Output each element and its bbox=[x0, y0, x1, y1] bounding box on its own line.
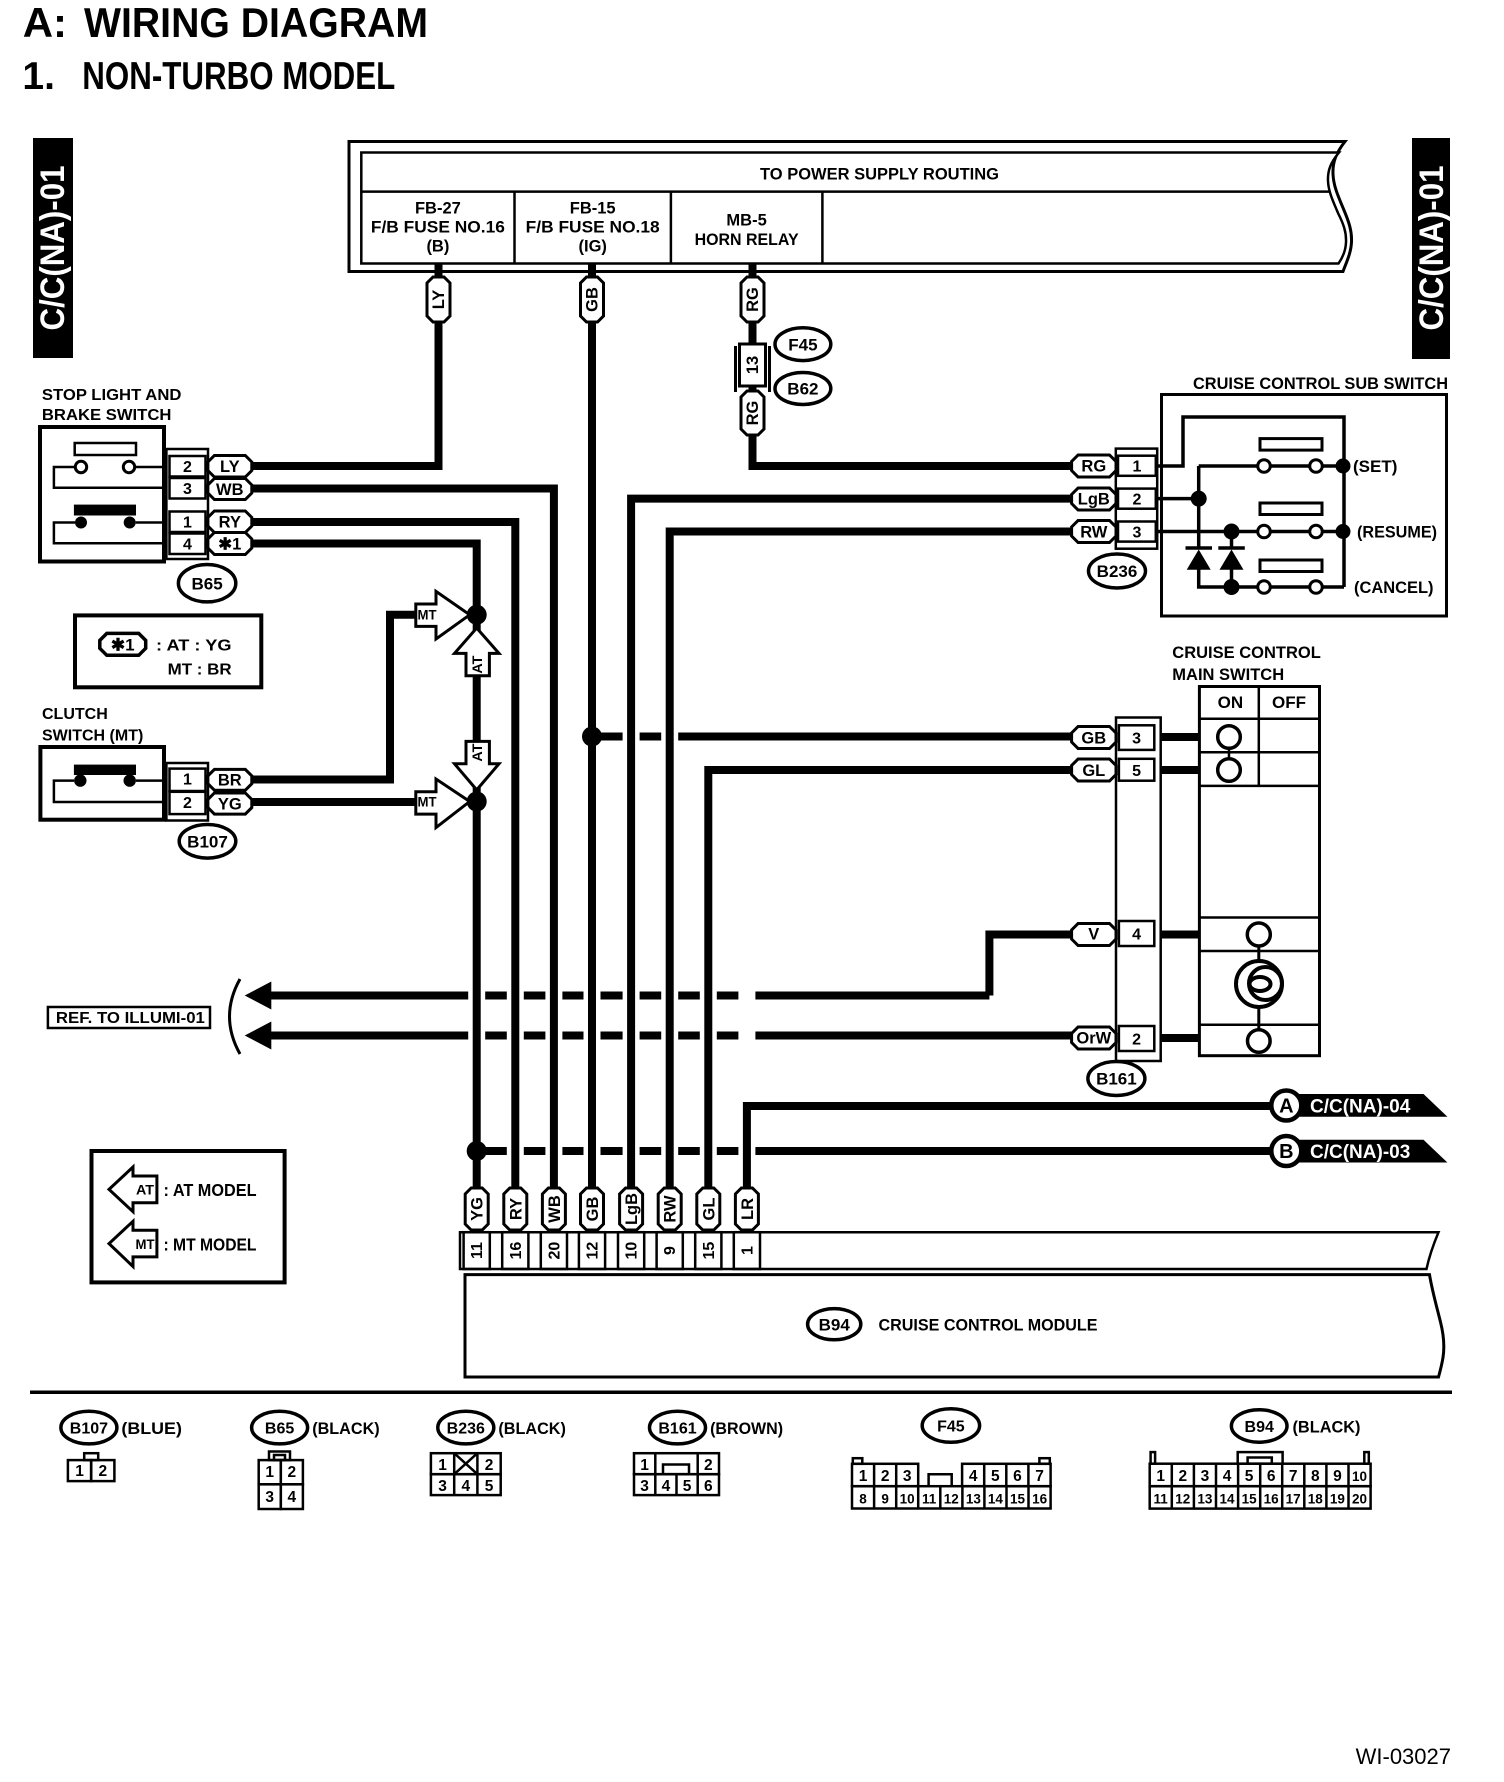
svg-text:1: 1 bbox=[265, 1464, 274, 1481]
svg-text:1: 1 bbox=[1132, 459, 1141, 476]
junction dot (MT/AT bottom) bbox=[467, 792, 487, 812]
wire label RW bbox=[1072, 521, 1116, 543]
svg-text:RY: RY bbox=[507, 1198, 525, 1220]
svg-text:3: 3 bbox=[1132, 730, 1141, 747]
svg-text:2: 2 bbox=[881, 1468, 890, 1485]
junction dot RW branch bbox=[1224, 524, 1240, 540]
wire to banner B (crossing gaps) bbox=[477, 1147, 507, 1155]
RESUME contacts bbox=[1258, 524, 1351, 539]
svg-text:4: 4 bbox=[183, 537, 192, 554]
svg-text:4: 4 bbox=[461, 1478, 470, 1495]
svg-text:4: 4 bbox=[969, 1468, 978, 1485]
module pin 15 bbox=[695, 1232, 721, 1269]
svg-text:: AT MODEL: : AT MODEL bbox=[164, 1180, 257, 1200]
svg-text:C/C(NA)-01: C/C(NA)-01 bbox=[34, 166, 72, 331]
stop light and brake switch label bbox=[42, 387, 182, 424]
wire LgB from sub switch pin2 to module bbox=[631, 499, 1072, 1190]
fuse 13 (F45/B62) bbox=[736, 344, 770, 392]
clutch switch body bbox=[40, 747, 164, 820]
arrowhead to illumination (upper) bbox=[245, 982, 272, 1010]
svg-text:(BLACK): (BLACK) bbox=[1293, 1419, 1361, 1437]
svg-text:NON-TURBO MODEL: NON-TURBO MODEL bbox=[82, 55, 395, 98]
svg-text:REF. TO ILLUMI-01: REF. TO ILLUMI-01 bbox=[56, 1010, 205, 1027]
wire OrW to REF.TO ILLUMI-01 (crossing gaps) bbox=[271, 1032, 468, 1040]
wire GB from FB-15 down to module bbox=[588, 264, 596, 1191]
wire LR to banner A bbox=[747, 1106, 1271, 1190]
svg-text:6: 6 bbox=[704, 1478, 713, 1495]
wire label GL (module) bbox=[697, 1188, 720, 1230]
wire YG from clutch pin2 to MT arrow bbox=[252, 798, 417, 806]
wire label GB bbox=[1072, 727, 1116, 749]
svg-text:8: 8 bbox=[859, 1492, 867, 1507]
wire label WB (module) bbox=[542, 1188, 565, 1230]
svg-text:: AT : YG: : AT : YG bbox=[156, 638, 232, 655]
svg-text:B94: B94 bbox=[1245, 1419, 1274, 1436]
wire RY from brake pin1 to module bbox=[252, 522, 515, 1190]
svg-text:1: 1 bbox=[183, 515, 192, 532]
junction dot diodes (cancel row) bbox=[1224, 579, 1240, 595]
svg-text:RW: RW bbox=[662, 1195, 680, 1223]
svg-text:RG: RG bbox=[744, 287, 762, 312]
diode D1 bbox=[1186, 548, 1213, 570]
svg-text:13: 13 bbox=[744, 356, 762, 374]
svg-text:(IG): (IG) bbox=[578, 238, 606, 256]
svg-text:LY: LY bbox=[430, 290, 448, 310]
svg-text:✱1: ✱1 bbox=[111, 636, 135, 655]
svg-text:1: 1 bbox=[859, 1468, 868, 1485]
main switch wire stubs bbox=[1161, 737, 1200, 1038]
svg-text:WB: WB bbox=[546, 1195, 564, 1223]
svg-text:B236: B236 bbox=[1097, 562, 1138, 581]
SET contacts bbox=[1258, 459, 1351, 474]
svg-text:HORN RELAY: HORN RELAY bbox=[695, 231, 799, 249]
connector B236 (pins 1,2,3) bbox=[1116, 449, 1157, 549]
svg-text:✱1: ✱1 bbox=[218, 536, 241, 554]
wire label RG (below fuse) bbox=[741, 391, 764, 435]
svg-text:2: 2 bbox=[1178, 1468, 1187, 1485]
svg-text:CRUISE CONTROL SUB SWITCH: CRUISE CONTROL SUB SWITCH bbox=[1193, 375, 1448, 393]
module pin 12 bbox=[579, 1232, 605, 1269]
svg-text:15: 15 bbox=[1010, 1492, 1026, 1507]
wire label RY (module) bbox=[504, 1188, 527, 1230]
svg-text:13: 13 bbox=[1197, 1492, 1213, 1507]
module pin 9 bbox=[657, 1232, 683, 1269]
svg-text:F/B FUSE NO.16: F/B FUSE NO.16 bbox=[371, 219, 505, 237]
svg-text:GB: GB bbox=[1081, 729, 1106, 747]
actuator bar SET bbox=[1260, 439, 1322, 451]
svg-text:11: 11 bbox=[1154, 1492, 1169, 1507]
wire label LR (module) bbox=[735, 1188, 758, 1230]
main switch ON contacts bbox=[1218, 726, 1241, 782]
connector view B161 (BROWN) bbox=[634, 1411, 783, 1495]
arrow AT (down, above bottom junction) bbox=[455, 741, 500, 790]
wire label LgB (module) bbox=[620, 1188, 643, 1230]
svg-text:GB: GB bbox=[584, 287, 602, 312]
svg-text:YG: YG bbox=[218, 795, 242, 813]
svg-text:(BLACK): (BLACK) bbox=[498, 1420, 566, 1438]
svg-text:2: 2 bbox=[183, 459, 192, 476]
cruise control module connector band bbox=[460, 1232, 1439, 1269]
page tag banner C/C(NA)-01 (left) bbox=[33, 138, 73, 358]
svg-text:(BROWN): (BROWN) bbox=[710, 1420, 783, 1438]
svg-text:1.: 1. bbox=[22, 55, 55, 98]
svg-text:1: 1 bbox=[1156, 1468, 1165, 1485]
svg-text:F45: F45 bbox=[788, 335, 817, 354]
svg-text:FB-15: FB-15 bbox=[570, 200, 616, 218]
wire V to REF.TO ILLUMI-01 (crossing gaps) bbox=[271, 935, 1072, 996]
wire GB junction dot bbox=[582, 727, 602, 747]
svg-text:10: 10 bbox=[900, 1492, 915, 1507]
wire label WB bbox=[208, 479, 252, 500]
svg-text:MT : BR: MT : BR bbox=[168, 662, 232, 679]
connector ref oval B161 bbox=[1088, 1062, 1145, 1096]
module pin 10 bbox=[618, 1232, 644, 1269]
internal wiring sub switch bbox=[1157, 417, 1344, 587]
svg-text:4: 4 bbox=[287, 1489, 296, 1506]
CANCEL contacts bbox=[1258, 581, 1323, 594]
note box *1 AT:YG MT:BR bbox=[75, 615, 261, 687]
svg-text:F45: F45 bbox=[937, 1418, 965, 1435]
svg-text:B161: B161 bbox=[1096, 1070, 1137, 1089]
arrow AT (up, below top junction) bbox=[455, 628, 500, 676]
svg-text:MT: MT bbox=[136, 1236, 155, 1252]
connector view B94 (BLACK) bbox=[1150, 1410, 1371, 1509]
arrowhead to illumination (lower) bbox=[245, 1022, 272, 1050]
wire label RY bbox=[208, 511, 252, 533]
svg-text:LgB: LgB bbox=[1078, 490, 1110, 508]
svg-text:AT: AT bbox=[469, 655, 485, 673]
svg-text:2: 2 bbox=[183, 795, 192, 812]
svg-text:OrW: OrW bbox=[1076, 1030, 1111, 1048]
svg-text:20: 20 bbox=[546, 1242, 563, 1260]
svg-text:3: 3 bbox=[183, 481, 192, 498]
clutch switch label bbox=[42, 706, 143, 745]
continuation arc bbox=[230, 979, 241, 1054]
wire GL from main switch to module bbox=[708, 770, 1071, 1190]
svg-text:2: 2 bbox=[1132, 1032, 1141, 1049]
svg-text:1: 1 bbox=[75, 1463, 84, 1480]
subtitle: 1. NON-TURBO MODEL bbox=[22, 55, 395, 98]
stop light and brake switch body bbox=[40, 427, 164, 562]
fuse box cell FB-15 F/B FUSE NO.18 (IG) bbox=[526, 192, 671, 264]
module pin 11 bbox=[464, 1232, 490, 1269]
svg-text:(SET): (SET) bbox=[1353, 457, 1397, 476]
svg-text:5: 5 bbox=[1132, 763, 1141, 780]
svg-text:11: 11 bbox=[469, 1242, 486, 1259]
svg-text:5: 5 bbox=[1245, 1468, 1254, 1485]
svg-text:SWITCH (MT): SWITCH (MT) bbox=[42, 728, 143, 745]
svg-text:9: 9 bbox=[881, 1492, 889, 1507]
connector ref oval B107 bbox=[179, 825, 236, 859]
svg-text:LgB: LgB bbox=[623, 1193, 641, 1225]
svg-text:LR: LR bbox=[739, 1198, 757, 1220]
svg-text:1: 1 bbox=[640, 1457, 649, 1474]
cruise control main switch box bbox=[1199, 687, 1319, 1056]
legend arrow MT bbox=[109, 1221, 157, 1266]
svg-text:CLUTCH: CLUTCH bbox=[42, 706, 108, 723]
svg-text:(B): (B) bbox=[426, 238, 449, 256]
wire label YG bbox=[208, 793, 252, 814]
svg-text:5: 5 bbox=[991, 1468, 1000, 1485]
svg-text:FB-27: FB-27 bbox=[415, 200, 461, 218]
svg-text:WIRING DIAGRAM: WIRING DIAGRAM bbox=[84, 0, 428, 46]
svg-text:9: 9 bbox=[662, 1246, 679, 1255]
junction dot LgB branch bbox=[1191, 491, 1207, 507]
svg-text:B94: B94 bbox=[819, 1315, 851, 1334]
wire BR from clutch pin1 to MT arrow bbox=[252, 615, 417, 780]
cruise control sub switch box bbox=[1162, 395, 1447, 617]
wire RW from sub switch pin3 to module bbox=[670, 532, 1072, 1191]
svg-text:OFF: OFF bbox=[1272, 693, 1306, 712]
banner A C/C(NA)-04 bbox=[1271, 1091, 1447, 1121]
svg-text:CRUISE CONTROL: CRUISE CONTROL bbox=[1172, 644, 1321, 662]
svg-text:WI-03027: WI-03027 bbox=[1356, 1744, 1451, 1769]
svg-text:6: 6 bbox=[1267, 1468, 1276, 1485]
svg-text:1: 1 bbox=[183, 772, 192, 789]
svg-text:B107: B107 bbox=[70, 1420, 108, 1437]
junction dot (MT/AT top) bbox=[467, 605, 487, 625]
svg-text:1: 1 bbox=[739, 1246, 756, 1255]
wire label LgB bbox=[1072, 488, 1116, 510]
svg-text:12: 12 bbox=[944, 1492, 959, 1507]
svg-text:ON: ON bbox=[1218, 693, 1244, 712]
svg-text:V: V bbox=[1088, 926, 1099, 944]
page tag banner C/C(NA)-01 (right) bbox=[1412, 138, 1451, 359]
svg-text:RW: RW bbox=[1080, 523, 1108, 541]
svg-text:C/C(NA)-04: C/C(NA)-04 bbox=[1310, 1096, 1411, 1117]
svg-text:3: 3 bbox=[1201, 1468, 1210, 1485]
svg-text:7: 7 bbox=[1035, 1468, 1044, 1485]
svg-text:STOP LIGHT AND: STOP LIGHT AND bbox=[42, 387, 182, 404]
svg-text:RG: RG bbox=[744, 401, 762, 426]
svg-text:14: 14 bbox=[1219, 1492, 1235, 1507]
svg-text:15: 15 bbox=[701, 1242, 718, 1260]
illumination lamp bbox=[1236, 961, 1282, 1007]
svg-text:C/C(NA)-03: C/C(NA)-03 bbox=[1310, 1142, 1410, 1163]
svg-text:A: A bbox=[1279, 1096, 1293, 1118]
wire label RW (module) bbox=[658, 1188, 681, 1230]
svg-text:YG: YG bbox=[469, 1197, 487, 1221]
svg-text:(BLACK): (BLACK) bbox=[312, 1420, 380, 1438]
svg-text:B65: B65 bbox=[192, 574, 223, 593]
arrow MT (bottom, at clutch YG wire) bbox=[416, 779, 470, 828]
svg-text:WB: WB bbox=[216, 481, 244, 499]
clutch switch connector B107 (pins 1,2) bbox=[166, 763, 208, 821]
svg-text:A:: A: bbox=[23, 0, 67, 46]
wire label GB (module) bbox=[581, 1188, 604, 1230]
arrow MT (top, at brake *1 wire) bbox=[416, 591, 470, 639]
wire label LY bbox=[208, 456, 252, 478]
svg-text:B: B bbox=[1279, 1141, 1293, 1163]
legend arrow AT bbox=[109, 1167, 157, 1212]
svg-text:19: 19 bbox=[1330, 1492, 1345, 1507]
svg-text:(BLUE): (BLUE) bbox=[121, 1420, 181, 1438]
wire LY from FB-27 to brake switch bbox=[252, 264, 439, 467]
connector B161 (pins 3,5,4,2) bbox=[1116, 718, 1161, 1062]
svg-text:BR: BR bbox=[218, 772, 242, 790]
svg-text:MT: MT bbox=[418, 794, 437, 810]
svg-text:16: 16 bbox=[1264, 1492, 1280, 1507]
svg-text:GL: GL bbox=[1082, 762, 1105, 780]
svg-text:5: 5 bbox=[485, 1478, 494, 1495]
svg-text:4: 4 bbox=[1223, 1468, 1232, 1485]
svg-text:MT: MT bbox=[418, 607, 437, 623]
cruise control module box bbox=[465, 1275, 1444, 1377]
relay box cell MB-5 HORN RELAY bbox=[695, 192, 823, 264]
svg-text:2: 2 bbox=[704, 1457, 713, 1474]
svg-text:12: 12 bbox=[585, 1242, 602, 1260]
svg-text:C/C(NA)-01: C/C(NA)-01 bbox=[1413, 166, 1451, 331]
svg-text:6: 6 bbox=[1013, 1468, 1022, 1485]
svg-text:12: 12 bbox=[1175, 1492, 1190, 1507]
svg-text:2: 2 bbox=[287, 1464, 296, 1481]
legend box AT/MT model bbox=[92, 1151, 285, 1282]
svg-text:5: 5 bbox=[683, 1478, 692, 1495]
svg-text:3: 3 bbox=[438, 1478, 447, 1495]
wire label YG (module) bbox=[465, 1188, 488, 1230]
svg-text:2: 2 bbox=[1132, 491, 1141, 508]
svg-text:LY: LY bbox=[220, 458, 240, 476]
svg-text:10: 10 bbox=[624, 1242, 641, 1260]
cruise control main switch title bbox=[1172, 644, 1321, 684]
svg-text:1: 1 bbox=[438, 1457, 447, 1474]
actuator bar CANCEL bbox=[1260, 560, 1322, 572]
svg-text:4: 4 bbox=[662, 1478, 671, 1495]
wire label GL bbox=[1072, 759, 1116, 781]
wire label RG bbox=[1072, 455, 1116, 477]
module pin 1 bbox=[734, 1232, 760, 1269]
svg-text:AT: AT bbox=[136, 1182, 154, 1198]
svg-text:MAIN SWITCH: MAIN SWITCH bbox=[1172, 666, 1284, 684]
svg-text:3: 3 bbox=[903, 1468, 912, 1485]
connector ref oval F45 bbox=[775, 328, 831, 361]
svg-text:(RESUME): (RESUME) bbox=[1357, 523, 1437, 542]
svg-text:B107: B107 bbox=[187, 832, 228, 851]
connector view B65 (BLACK) bbox=[252, 1411, 380, 1509]
connector ref oval B65 bbox=[178, 565, 235, 602]
wire label RG (vertical stub) bbox=[741, 277, 764, 322]
svg-text:10: 10 bbox=[1352, 1469, 1367, 1484]
svg-text:B65: B65 bbox=[265, 1420, 294, 1437]
fuse box cell FB-27 F/B FUSE NO.16 (B) bbox=[371, 192, 515, 264]
svg-text:2: 2 bbox=[485, 1457, 494, 1474]
wire WB from brake pin3 to module bbox=[252, 489, 554, 1191]
svg-text:F/B FUSE NO.18: F/B FUSE NO.18 bbox=[526, 219, 660, 237]
svg-text:18: 18 bbox=[1308, 1492, 1324, 1507]
svg-text:: MT MODEL: : MT MODEL bbox=[164, 1234, 257, 1254]
svg-text:RG: RG bbox=[1081, 458, 1106, 476]
svg-text:BRAKE SWITCH: BRAKE SWITCH bbox=[42, 407, 172, 424]
connector view B236 (BLACK) bbox=[431, 1411, 566, 1495]
svg-text:(CANCEL): (CANCEL) bbox=[1354, 578, 1434, 597]
banner B C/C(NA)-03 bbox=[1271, 1136, 1447, 1166]
wire label GB (vertical stub) bbox=[581, 277, 604, 322]
svg-text:2: 2 bbox=[98, 1463, 107, 1480]
connector view F45 bbox=[852, 1409, 1051, 1509]
svg-text:TO POWER SUPPLY ROUTING: TO POWER SUPPLY ROUTING bbox=[760, 165, 999, 184]
svg-text:B62: B62 bbox=[787, 380, 818, 399]
svg-text:11: 11 bbox=[922, 1492, 937, 1507]
power supply routing box bbox=[349, 142, 1352, 272]
svg-text:14: 14 bbox=[988, 1492, 1004, 1507]
svg-text:RY: RY bbox=[219, 514, 241, 532]
connector ref oval B94 bbox=[808, 1309, 861, 1340]
main switch illumination contacts bbox=[1247, 923, 1270, 1052]
svg-text:3: 3 bbox=[265, 1489, 274, 1506]
wire GB to main switch (crossing gaps) bbox=[592, 733, 623, 741]
connector ref oval B62 bbox=[775, 373, 831, 405]
svg-text:4: 4 bbox=[1132, 927, 1141, 944]
svg-text:3: 3 bbox=[640, 1478, 649, 1495]
wire label BR bbox=[208, 769, 252, 790]
svg-text:13: 13 bbox=[966, 1492, 982, 1507]
svg-text:9: 9 bbox=[1333, 1468, 1342, 1485]
svg-text:B236: B236 bbox=[447, 1420, 485, 1437]
wire label V bbox=[1072, 924, 1116, 946]
svg-text:MB-5: MB-5 bbox=[726, 212, 766, 230]
svg-text:B161: B161 bbox=[658, 1420, 696, 1437]
REF. TO ILLUMI-01 box bbox=[48, 1007, 210, 1028]
brake switch connector B65 (pins 2,3,1,4) bbox=[166, 449, 208, 559]
separator line bbox=[30, 1391, 1452, 1395]
svg-text:AT: AT bbox=[469, 743, 485, 761]
svg-text:7: 7 bbox=[1289, 1468, 1298, 1485]
wire label LY (vertical stub) bbox=[427, 277, 450, 322]
svg-text:CRUISE CONTROL MODULE: CRUISE CONTROL MODULE bbox=[879, 1315, 1098, 1334]
svg-text:15: 15 bbox=[1242, 1492, 1258, 1507]
svg-text:16: 16 bbox=[1032, 1492, 1048, 1507]
svg-text:GB: GB bbox=[584, 1197, 602, 1222]
diode D2 bbox=[1218, 548, 1245, 570]
wire *1/YG from brake pin4 to junction bbox=[252, 544, 477, 1191]
svg-text:16: 16 bbox=[508, 1242, 525, 1260]
actuator bar RESUME bbox=[1260, 503, 1322, 515]
svg-text:8: 8 bbox=[1311, 1468, 1320, 1485]
wire label OrW bbox=[1072, 1027, 1116, 1049]
svg-text:20: 20 bbox=[1352, 1492, 1367, 1507]
svg-text:3: 3 bbox=[1132, 524, 1141, 541]
wire RG from MB-5 horn relay bbox=[753, 264, 1072, 467]
connector ref oval B236 bbox=[1089, 554, 1146, 588]
module pin 20 bbox=[541, 1232, 567, 1269]
connector view B107 (BLUE) bbox=[61, 1411, 182, 1481]
module pin 16 bbox=[502, 1232, 528, 1269]
junction dot B line bbox=[467, 1141, 487, 1161]
svg-text:17: 17 bbox=[1286, 1492, 1301, 1507]
svg-text:GL: GL bbox=[700, 1198, 718, 1221]
title: A: WIRING DIAGRAM bbox=[23, 0, 428, 46]
wire label *1 bbox=[208, 533, 252, 555]
